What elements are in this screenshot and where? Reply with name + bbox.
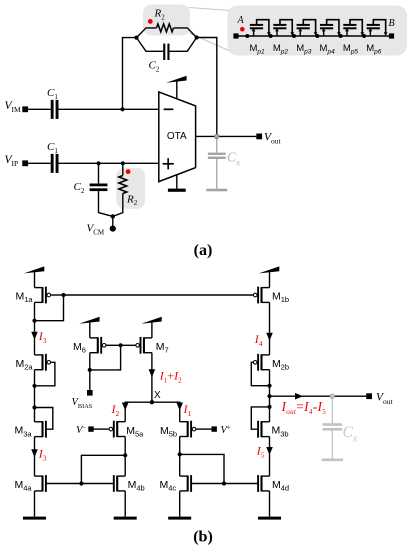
label I2 — [111, 402, 120, 418]
label Vbias — [72, 397, 93, 410]
red dot on R2 input branch — [126, 169, 131, 174]
label C2 (feedback) — [149, 60, 160, 74]
svg-text:I1: I1 — [183, 402, 192, 418]
label I1 — [183, 402, 192, 418]
label Cx (b) — [343, 424, 358, 444]
callout line top from R2 box to inset — [189, 8, 230, 11]
wire: M1a gate-drain tie — [35, 295, 64, 321]
caption (a) — [194, 242, 213, 259]
label C1 (upper) — [47, 87, 58, 101]
label M6 — [73, 341, 86, 355]
capacitor C2 (input branch) — [90, 163, 113, 216]
label Mp6 — [366, 43, 382, 55]
current arrow I5 — [266, 447, 273, 455]
wire: M1b drain to M2b — [269, 302, 271, 355]
capacitor C1 (lower) — [51, 154, 59, 173]
terminal V- square — [88, 426, 93, 431]
svg-text:V−: V− — [76, 424, 86, 437]
caption (b) — [193, 529, 213, 546]
node: M6 drain / Vbias — [88, 368, 92, 372]
svg-text:V+: V+ — [221, 424, 231, 437]
gray ground below Cx (a) — [206, 189, 227, 192]
wire: gate rail M1a to M1b — [64, 294, 254, 296]
node: R2 branch tap — [121, 161, 125, 165]
label I5 — [256, 443, 265, 459]
node: Cx tap (gray) — [330, 394, 334, 398]
wire: gate tie down to M6 drain — [90, 345, 121, 370]
transistor M2a — [35, 354, 51, 371]
svg-text:M1a: M1a — [16, 291, 34, 305]
label M3b — [272, 425, 289, 439]
wire: M2b drain to M3b — [269, 370, 271, 422]
svg-text:X: X — [154, 390, 161, 401]
svg-text:C2: C2 — [149, 60, 160, 74]
wire: M4a-M4b gate line — [46, 483, 114, 485]
svg-text:(a): (a) — [194, 242, 213, 259]
label M4a — [15, 479, 33, 493]
label Mp3 — [296, 43, 312, 55]
wire: M2a gate-drain tie — [35, 362, 55, 386]
label Vcm — [87, 223, 105, 237]
terminal Vbias square — [87, 390, 93, 396]
wire: M4b to ground — [124, 491, 126, 517]
wire: M3b gate tie — [251, 407, 269, 429]
ground M4a — [23, 517, 46, 520]
svg-text:M3b: M3b — [272, 425, 289, 439]
supply flag M1b — [259, 266, 280, 287]
current arrow I1 — [176, 403, 183, 411]
label Vim — [5, 100, 22, 114]
highlight box around feedback resistor R2 — [143, 5, 190, 36]
current arrow Iout — [295, 393, 303, 400]
wire: M4a to ground — [34, 491, 36, 517]
svg-text:OTA: OTA — [167, 131, 187, 142]
node: M1a gate — [61, 293, 65, 297]
current arrow I3 upper — [31, 332, 38, 340]
OTA supply flag — [166, 76, 187, 99]
transistor Mp6 (pseudo-resistor) — [362, 20, 387, 38]
current arrow I3 lower — [31, 449, 38, 457]
wire: M2b gate-drain tie — [251, 362, 269, 385]
svg-text:VBIAS: VBIAS — [72, 397, 93, 410]
label Mp1 — [250, 43, 266, 55]
label Mp2 — [273, 43, 289, 55]
node: C2/R2 junction — [111, 214, 115, 218]
wire: M6 gate lead — [106, 344, 121, 346]
node: M2a drain — [32, 384, 36, 388]
transistor M4a — [35, 475, 46, 492]
capacitor C1 (upper) — [51, 100, 59, 119]
label M5b — [160, 425, 177, 439]
wire: C1 to OTA inverting input — [59, 108, 159, 110]
terminal Vcm dot — [110, 226, 116, 232]
transistor M3b — [258, 421, 269, 438]
wire: M1a drain to M2a source — [34, 302, 36, 355]
svg-text:M1b: M1b — [272, 291, 289, 305]
op-amp OTA body — [159, 92, 196, 182]
supply flag M7 — [141, 317, 162, 338]
terminal B square — [389, 33, 394, 38]
node: output tap — [267, 394, 271, 398]
wire: M5a drain to left gate line — [81, 455, 125, 483]
terminal V+ square — [212, 426, 217, 431]
terminal Vout square (b) — [366, 393, 372, 399]
terminal Vout square (a) — [256, 134, 262, 140]
gray ground below Cx (b) — [322, 459, 344, 462]
OTA inverting input minus sign — [164, 108, 174, 110]
label Mp4 — [320, 43, 336, 55]
transistor Mp4 (pseudo-resistor) — [315, 20, 340, 38]
terminal Vip square — [22, 160, 28, 166]
svg-text:VIP: VIP — [5, 154, 19, 168]
wire: M1a gate lead — [51, 294, 64, 296]
node: M3a gate tie point — [32, 405, 36, 409]
node: M5b drain junction — [178, 452, 182, 456]
wire: M5b drain to M4c — [179, 454, 181, 476]
node: feedback tap on Vim wire — [120, 107, 124, 111]
wire: M5b drain — [179, 437, 181, 455]
transistor M5a — [109, 421, 125, 438]
supply flag M6 — [79, 317, 100, 338]
label I3 lower — [38, 446, 47, 462]
label M3a — [15, 425, 33, 439]
ground M4d — [258, 517, 281, 520]
node B label — [389, 18, 395, 29]
wire: Vip to C1 — [28, 162, 50, 164]
svg-text:Vout: Vout — [376, 392, 394, 406]
transistor M1a — [35, 287, 51, 304]
wire: M5a drain to M4b — [124, 455, 126, 476]
svg-text:M4a: M4a — [15, 479, 33, 493]
wire: X to right branch — [152, 402, 180, 422]
svg-text:I2: I2 — [111, 402, 120, 418]
wire: M3a gate tie — [35, 408, 53, 430]
transistor M5b — [180, 421, 196, 438]
transistor M4d — [258, 475, 269, 492]
transistor M6 — [90, 337, 106, 354]
label M1a — [16, 291, 34, 305]
wire: M4d to ground — [269, 491, 271, 517]
OTA label — [167, 131, 187, 142]
label M4c — [160, 479, 177, 493]
current arrow I1+I2 — [149, 369, 156, 377]
resistor R2 (input branch) — [113, 163, 127, 216]
wire: C1 to OTA non-inverting input — [59, 162, 159, 164]
label I1+I2 — [159, 368, 182, 384]
transistor M4b — [114, 475, 125, 492]
node: M1a drain — [32, 319, 36, 323]
transistor M4c — [180, 475, 191, 492]
svg-text:(b): (b) — [193, 529, 213, 546]
svg-text:M2a: M2a — [16, 358, 34, 372]
label Cx (a) — [227, 150, 240, 168]
node: output junction (gray) — [215, 134, 219, 138]
svg-text:Vout: Vout — [264, 131, 282, 145]
label I4 — [254, 332, 263, 348]
capacitor C2 (feedback) — [137, 38, 197, 61]
OTA non-inverting input plus sign — [163, 158, 174, 169]
label V+ — [221, 424, 231, 437]
svg-text:I5: I5 — [256, 443, 265, 459]
label Mp5 — [343, 43, 359, 55]
svg-text:M5b: M5b — [160, 425, 177, 439]
wire: M3b to M4d — [269, 437, 271, 477]
transistor Mp3 (pseudo-resistor) — [292, 20, 317, 38]
highlight box around R2 (input branch) — [116, 168, 145, 209]
svg-text:C1: C1 — [47, 141, 58, 155]
wire: output to Vout — [270, 395, 367, 397]
label R2 (input branch) — [126, 193, 138, 207]
label M7 — [156, 341, 169, 355]
node: M3b gate tie point — [267, 405, 271, 409]
node A label — [237, 15, 245, 26]
wire: M2a drain to M3a — [34, 370, 36, 422]
svg-text:VCM: VCM — [87, 223, 105, 237]
transistor M1b — [253, 287, 269, 304]
node: C2 branch tap — [96, 161, 100, 165]
svg-text:I3: I3 — [38, 329, 47, 345]
label C2 (input branch) — [74, 181, 85, 195]
label M2b — [272, 358, 289, 372]
wire: Vim to C1 — [28, 108, 50, 110]
svg-text:I1+I2: I1+I2 — [159, 368, 182, 384]
svg-text:VIM: VIM — [5, 100, 22, 114]
wire: junction to Vcm — [112, 216, 114, 228]
label R2 (feedback) — [154, 8, 166, 22]
label M4b — [128, 479, 145, 493]
svg-text:I4: I4 — [254, 332, 263, 348]
label M4d — [272, 479, 289, 493]
resistor R2 (feedback) — [137, 24, 197, 38]
label Vip — [5, 154, 19, 168]
wire: feedback right to output node — [197, 38, 217, 137]
wire: M5b gate lead to V+ — [196, 428, 212, 430]
label Vout (a) — [264, 131, 282, 145]
svg-text:M4b: M4b — [128, 479, 145, 493]
wire: M6 drain down to Vbias — [89, 353, 91, 391]
label X — [154, 390, 161, 401]
wire: M7 drain to node X — [151, 353, 153, 403]
red dot on R2 feedback — [148, 19, 153, 24]
capacitor Cx (b, parasitic) — [323, 396, 343, 459]
ground M4b — [114, 517, 137, 520]
wire: M3a to M4a — [34, 437, 36, 477]
red dot at node A — [240, 27, 245, 32]
svg-text:M2b: M2b — [272, 358, 289, 372]
callout line bottom from R2 box to inset — [189, 33, 230, 51]
terminal A square — [233, 33, 238, 38]
label M1b — [272, 291, 289, 305]
svg-text:M7: M7 — [156, 341, 169, 355]
node: M5a drain junction — [123, 453, 127, 457]
label V- — [76, 424, 86, 437]
wire: M5a gate lead to V- — [94, 428, 110, 430]
transistor M3a — [35, 421, 46, 438]
label Vout (b) — [376, 392, 394, 406]
inset box: pseudo-resistor implementation — [228, 6, 408, 56]
label Iout equation — [281, 399, 327, 416]
wire: pseudo-resistor chain bottom rail — [239, 35, 390, 37]
svg-text:M3a: M3a — [15, 425, 33, 439]
svg-text:I3: I3 — [38, 446, 47, 462]
ground below OTA — [168, 189, 186, 192]
node: feedback right junction — [195, 35, 199, 39]
svg-text:Cx: Cx — [227, 150, 240, 168]
node: M2b drain — [267, 384, 271, 388]
supply flag M1a — [24, 266, 45, 287]
svg-text:M6: M6 — [73, 341, 86, 355]
transistor Mp5 (pseudo-resistor) — [339, 20, 364, 38]
node: feedback left junction — [134, 36, 138, 40]
node X — [150, 400, 154, 404]
wire: X to left branch — [125, 402, 152, 422]
wire: M4c-M4d gate line — [191, 483, 258, 485]
svg-text:A: A — [237, 15, 245, 26]
wire: OTA output to Vout — [196, 135, 257, 137]
svg-text:C1: C1 — [47, 87, 58, 101]
wire: M5b drain to right gate line — [180, 454, 224, 483]
transistor Mp1 (pseudo-resistor) — [245, 20, 270, 38]
label M5a — [126, 425, 144, 439]
label I3 upper — [38, 329, 47, 345]
current arrow I2 — [122, 403, 129, 411]
node: gate line junction right — [222, 481, 226, 485]
wire: M7 gate lead — [121, 344, 136, 346]
node: gate line junction left — [79, 481, 83, 485]
node: M6/M7 gate — [119, 343, 123, 347]
label M2a — [16, 358, 34, 372]
wire: tap from Vim input up to feedback network — [123, 38, 137, 110]
svg-text:M4d: M4d — [272, 479, 289, 493]
ground M4c — [168, 517, 191, 520]
transistor M7 — [136, 337, 152, 354]
wire: M4c to ground — [179, 491, 181, 517]
svg-text:M5a: M5a — [126, 425, 144, 439]
svg-text:Cx: Cx — [343, 424, 358, 444]
wire: M5a drain — [124, 437, 126, 456]
wire: OTA to ground — [176, 175, 178, 189]
svg-text:B: B — [389, 18, 395, 29]
svg-text:Iout=I4-I5: Iout=I4-I5 — [281, 399, 327, 416]
svg-text:C2: C2 — [74, 181, 85, 195]
capacitor Cx (a, parasitic) — [208, 136, 226, 188]
current arrow I4 — [266, 333, 273, 341]
transistor M2b — [253, 354, 269, 371]
transistor Mp2 (pseudo-resistor) — [269, 20, 294, 38]
svg-text:M4c: M4c — [160, 479, 177, 493]
label C1 (lower) — [47, 141, 58, 155]
terminal Vim square — [22, 106, 28, 112]
